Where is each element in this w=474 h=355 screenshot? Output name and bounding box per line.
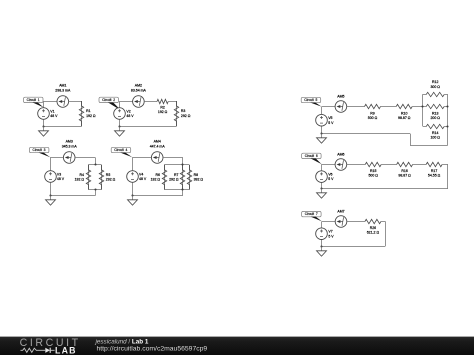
voltage source V4 (48 V) xyxy=(127,171,147,183)
wire V1 bottom stem xyxy=(43,119,45,126)
wire C1 top-left xyxy=(44,101,57,103)
logo resistor zigzag xyxy=(21,348,39,352)
svg-text:R1: R1 xyxy=(86,109,91,113)
svg-text:Circuit 5: Circuit 5 xyxy=(304,98,317,102)
voltage source V3 (48 V) xyxy=(45,171,65,183)
svg-text:V2: V2 xyxy=(126,109,130,113)
node flag Circuit 7 xyxy=(302,211,322,221)
svg-text:392 Ω: 392 Ω xyxy=(194,178,204,182)
svg-text:Circuit 6: Circuit 6 xyxy=(305,154,318,158)
resistor R4 (192 &#937;) xyxy=(75,165,91,190)
node flag Circuit 4 xyxy=(111,147,132,157)
junction C2 bottom node xyxy=(118,125,120,127)
wire R8 leads xyxy=(189,165,191,190)
ground xyxy=(317,247,327,257)
wire V2 top stem xyxy=(119,101,121,108)
ammeter AM3 xyxy=(62,140,78,164)
resistor R13 (200 &#937;) xyxy=(426,104,444,120)
junction C1 bottom node xyxy=(42,125,44,127)
wire R14 right lead xyxy=(444,126,448,128)
svg-text:V4: V4 xyxy=(139,172,143,176)
wire V5 top stem xyxy=(321,107,323,115)
resistor R10 (98.87 &#937;) xyxy=(396,104,412,120)
svg-text:V5: V5 xyxy=(328,116,332,120)
svg-text:AM6: AM6 xyxy=(337,153,344,157)
svg-text:Circuit 4: Circuit 4 xyxy=(114,148,127,152)
svg-text:R7: R7 xyxy=(174,173,179,177)
wire R7 leads xyxy=(182,165,184,190)
resistor R2 (192 &#937;) xyxy=(157,99,168,114)
svg-text:LAB: LAB xyxy=(55,346,77,355)
resistor R15 (500 &#937;) xyxy=(365,162,381,177)
ground xyxy=(317,134,327,144)
svg-text:5 V: 5 V xyxy=(328,177,334,181)
wire C4 top-left xyxy=(132,157,151,159)
wire R3 leads xyxy=(176,101,178,126)
wire V3 top stem xyxy=(50,157,52,170)
wire C4 top-right xyxy=(163,157,183,159)
svg-text:5 V: 5 V xyxy=(328,234,334,238)
junction C5 left rail mid xyxy=(421,105,423,107)
voltage source V2 (48 V) xyxy=(114,108,135,120)
ammeter AM2 xyxy=(131,84,147,108)
svg-text:Circuit 7: Circuit 7 xyxy=(305,212,318,216)
wire V4 top stem xyxy=(132,157,134,170)
svg-text:48 V: 48 V xyxy=(50,114,58,118)
wire V7 bottom stem xyxy=(321,240,323,247)
junction C4 bottom node xyxy=(131,194,133,196)
svg-text:R2: R2 xyxy=(160,106,165,110)
node Circuit1 net xyxy=(24,84,96,137)
svg-text:AM1: AM1 xyxy=(59,84,66,88)
ground xyxy=(128,196,138,206)
svg-text:V6: V6 xyxy=(328,173,332,177)
wire C6 top-left xyxy=(322,164,336,166)
svg-text:621.2 Ω: 621.2 Ω xyxy=(367,231,380,235)
voltage source V6 (5 V) xyxy=(316,171,334,183)
wire C4 parallel top rail xyxy=(164,164,189,166)
wire C6 bottom xyxy=(322,188,448,190)
wire C6 right drop xyxy=(447,164,449,189)
footer bar xyxy=(0,337,474,355)
junction C3 top rail xyxy=(94,163,96,165)
resistor R9 (500 &#937;) xyxy=(365,104,381,120)
svg-text:98.87 Ω: 98.87 Ω xyxy=(398,174,411,178)
wire C5 right rail xyxy=(447,94,449,126)
wire C5 top-left xyxy=(322,106,336,108)
svg-text:Circuit 2: Circuit 2 xyxy=(102,98,115,102)
wire C3 top-left xyxy=(50,157,63,159)
voltage source V1 (48 V) xyxy=(38,108,58,120)
wire C6 AM6-R15 xyxy=(347,164,366,166)
junction C3 bottom rail xyxy=(94,188,96,190)
svg-text:AM4: AM4 xyxy=(154,140,161,144)
svg-text:345.3 mA: 345.3 mA xyxy=(62,145,78,149)
junction C6 bottom node xyxy=(320,187,322,189)
wire V3 bottom stem xyxy=(50,182,52,195)
wire C7 R26-corner xyxy=(381,221,386,223)
wire C2 bottom xyxy=(120,126,177,128)
ground xyxy=(46,196,56,206)
svg-text:R15: R15 xyxy=(370,169,376,173)
wire C2 top-left xyxy=(120,101,133,103)
wire C6 R15-R16 xyxy=(381,164,396,166)
svg-text:R14: R14 xyxy=(432,131,438,135)
wire C5 return right drop xyxy=(447,126,449,145)
ammeter AM5 xyxy=(335,95,347,113)
wire R13 right lead xyxy=(444,106,448,108)
svg-text:V3: V3 xyxy=(57,172,61,176)
wire C6 R17-corner xyxy=(442,164,448,166)
svg-text:Circuit 3: Circuit 3 xyxy=(32,148,45,152)
svg-text:R17: R17 xyxy=(431,169,437,173)
resistor R16 (98.87 &#937;) xyxy=(397,162,413,177)
wire C4 feed down xyxy=(182,157,184,165)
svg-text:54.55 Ω: 54.55 Ω xyxy=(428,174,441,178)
wire C4 bottom xyxy=(132,195,182,197)
wire C5 bottom xyxy=(322,133,410,135)
wire C3 feed to bottom xyxy=(95,190,97,196)
ammeter AM7 xyxy=(335,210,347,228)
node flag Circuit 2 xyxy=(99,97,121,110)
svg-text:R6: R6 xyxy=(156,173,161,177)
wire C5 R10-block xyxy=(412,106,423,108)
svg-text:192 Ω: 192 Ω xyxy=(151,178,161,182)
resistor R3 (292 &#937;) xyxy=(174,101,190,126)
svg-text:48 V: 48 V xyxy=(126,114,134,118)
svg-text:V7: V7 xyxy=(328,230,332,234)
wire R14 left lead xyxy=(423,126,426,128)
svg-text:R5: R5 xyxy=(106,173,111,177)
wire R13 left lead xyxy=(423,106,426,108)
resistor R7 (292 &#937;) xyxy=(169,165,185,190)
svg-text:R10: R10 xyxy=(401,112,407,116)
svg-text:http://circuitlab.com/c2mau565: http://circuitlab.com/c2mau56597cp9 xyxy=(97,345,208,352)
ammeter AM1 xyxy=(55,84,71,108)
svg-text:192 Ω: 192 Ω xyxy=(86,114,96,118)
wire C5 return jog up xyxy=(410,134,412,146)
svg-text:447.4 mA: 447.4 mA xyxy=(150,145,166,149)
svg-text:R8: R8 xyxy=(194,173,199,177)
svg-text:R12: R12 xyxy=(432,80,438,84)
node flag Circuit 1 xyxy=(24,97,44,107)
node flag Circuit 6 xyxy=(302,153,322,164)
svg-text:R9: R9 xyxy=(370,112,375,116)
wire V4 bottom stem xyxy=(132,182,134,195)
wire C1 bottom xyxy=(44,126,82,128)
svg-text:192 Ω: 192 Ω xyxy=(75,178,85,182)
junction C5 bottom node xyxy=(320,132,322,134)
resistor R17 (54.55 &#937;) xyxy=(426,162,442,177)
wire C5 R9-R10 xyxy=(381,106,397,108)
svg-text:R4: R4 xyxy=(80,173,85,177)
wire C7 top-left xyxy=(322,221,335,223)
wire C7 bottom xyxy=(322,246,386,248)
wire R12 right lead xyxy=(444,94,448,96)
svg-text:292 Ω: 292 Ω xyxy=(169,178,179,182)
junction C5 right rail bottom xyxy=(446,125,448,127)
svg-text:83.64 mA: 83.64 mA xyxy=(131,89,147,93)
wire C3 feed down xyxy=(95,157,97,165)
wire C4 feed to bottom xyxy=(182,190,184,196)
voltage source V7 (5 V) xyxy=(316,228,335,240)
wire R4 leads xyxy=(88,165,90,190)
wire C1 top-right xyxy=(69,101,82,103)
wire C4 parallel bottom rail xyxy=(164,189,189,191)
wire C2 R2-corner xyxy=(168,101,176,103)
wire V6 bottom stem xyxy=(321,182,323,189)
wire C3 parallel top rail xyxy=(88,164,101,166)
svg-text:R13: R13 xyxy=(432,112,438,116)
svg-text:5 V: 5 V xyxy=(328,121,334,125)
svg-text:98.87 Ω: 98.87 Ω xyxy=(398,116,411,120)
svg-text:AM5: AM5 xyxy=(337,95,344,99)
svg-text:192 Ω: 192 Ω xyxy=(158,110,168,114)
resistor R1 (192 &#937;) xyxy=(79,101,96,126)
svg-text:48 V: 48 V xyxy=(139,177,147,181)
wire C3 bottom xyxy=(50,195,95,197)
wire C5 left rail xyxy=(422,94,424,126)
resistor R8 (392 &#937;) xyxy=(187,165,203,190)
svg-text:500 Ω: 500 Ω xyxy=(368,116,378,120)
wire C7 AM7-R26 xyxy=(347,221,365,223)
wire C6 R16-R17 xyxy=(413,164,427,166)
logo wire to diode xyxy=(38,349,45,351)
wire C7 right drop xyxy=(385,222,387,247)
wire V6 top stem xyxy=(321,164,323,171)
svg-text:100 Ω: 100 Ω xyxy=(430,136,440,140)
wire V1 top stem xyxy=(43,101,45,108)
junction C3 bottom node xyxy=(49,194,51,196)
wire C5 return bottom xyxy=(410,145,448,147)
junction C4 top rail xyxy=(181,163,183,165)
wire C3 top-right xyxy=(75,157,95,159)
wire R12 left lead xyxy=(423,94,426,96)
svg-text:298.3 mA: 298.3 mA xyxy=(55,89,71,93)
wire R5 leads xyxy=(101,165,103,190)
ground xyxy=(39,127,49,137)
svg-text:R3: R3 xyxy=(181,109,186,113)
resistor R26 (621.2 &#937;) xyxy=(365,219,381,234)
ammeter AM4 xyxy=(150,140,166,164)
node flag Circuit 5 xyxy=(301,97,321,106)
ground xyxy=(317,189,327,199)
wire C2 AM2-R2 xyxy=(144,101,157,103)
resistor R12 (300 &#937;) xyxy=(426,80,444,97)
svg-text:AM7: AM7 xyxy=(337,210,344,214)
junction C5 right rail mid xyxy=(446,105,448,107)
wire V5 bottom stem xyxy=(321,126,323,134)
resistor R5 (292 &#937;) xyxy=(99,165,115,190)
junction C4 bottom rail xyxy=(181,188,183,190)
ammeter AM6 xyxy=(335,153,347,171)
svg-text:Circuit 1: Circuit 1 xyxy=(27,98,40,102)
ground xyxy=(115,127,125,137)
wire V7 top stem xyxy=(321,222,323,228)
voltage source V5 (5 V) xyxy=(316,114,334,126)
logo diode symbol xyxy=(45,348,50,353)
wire R6 leads xyxy=(164,165,166,190)
junction C7 bottom node xyxy=(320,245,322,247)
svg-text:V1: V1 xyxy=(50,109,54,113)
svg-text:48 V: 48 V xyxy=(57,177,65,181)
wire V2 bottom stem xyxy=(119,119,121,126)
wire R1 leads xyxy=(81,101,83,126)
svg-text:292 Ω: 292 Ω xyxy=(106,178,116,182)
resistor R6 (192 &#937;) xyxy=(151,165,167,190)
svg-text:292 Ω: 292 Ω xyxy=(181,114,191,118)
svg-text:AM2: AM2 xyxy=(135,84,142,88)
wire C5 AM5-R9 xyxy=(347,106,365,108)
node flag Circuit 3 xyxy=(29,147,50,157)
svg-text:300 Ω: 300 Ω xyxy=(430,85,440,89)
svg-text:R26: R26 xyxy=(370,226,376,230)
svg-text:AM3: AM3 xyxy=(66,140,73,144)
resistor R14 (100 &#937;) xyxy=(426,124,444,139)
svg-text:500 Ω: 500 Ω xyxy=(368,174,378,178)
svg-text:200 Ω: 200 Ω xyxy=(430,116,440,120)
wire C3 parallel bottom rail xyxy=(88,189,101,191)
svg-text:R16: R16 xyxy=(401,169,407,173)
